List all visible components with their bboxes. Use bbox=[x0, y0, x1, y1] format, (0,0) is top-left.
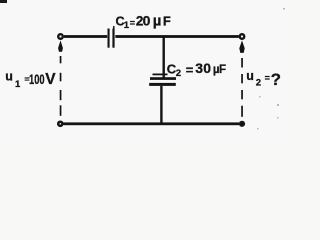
svg-text:u: u bbox=[5, 70, 13, 84]
capacitor C2 bbox=[149, 74, 176, 86]
label u1 = 100V bbox=[5, 70, 56, 90]
arrow: u1 (pointing up) bbox=[58, 40, 63, 52]
svg-text:2: 2 bbox=[176, 68, 181, 79]
svg-text:V: V bbox=[45, 71, 56, 88]
svg-text:?: ? bbox=[271, 70, 281, 89]
wire: middle vertical drop to C2 bbox=[163, 37, 165, 77]
svg-text:0: 0 bbox=[143, 13, 151, 29]
svg-text:=: = bbox=[130, 18, 135, 28]
svg-text:=: = bbox=[265, 73, 270, 83]
svg-text:u: u bbox=[246, 69, 254, 83]
label C1 = 20uF bbox=[116, 13, 171, 31]
wire: left dashed (u1) bbox=[60, 56, 62, 116]
svg-text:100: 100 bbox=[29, 72, 45, 87]
svg-text:F: F bbox=[219, 64, 226, 76]
label u2 = ? bbox=[246, 69, 281, 89]
capacitor C1 bbox=[108, 29, 115, 48]
svg-text:2: 2 bbox=[256, 78, 261, 89]
svg-text:1: 1 bbox=[15, 79, 21, 90]
svg-text:µ: µ bbox=[153, 13, 162, 30]
wire: bottom bbox=[64, 122, 240, 125]
label C2 = 30uF bbox=[167, 60, 226, 79]
node: bottom-left terminal bbox=[58, 122, 62, 126]
scan speck top-left corner bbox=[0, 0, 7, 3]
arrow: u2 (pointing up) bbox=[239, 40, 244, 53]
scan speck (comma) before C1 label bbox=[113, 26, 115, 29]
wire: top, left of C1 bbox=[64, 35, 107, 38]
svg-text:0: 0 bbox=[203, 60, 211, 76]
svg-text:3: 3 bbox=[195, 60, 203, 76]
scan noise specks bbox=[257, 8, 285, 130]
svg-text:F: F bbox=[163, 14, 171, 29]
node: top-right terminal bbox=[240, 34, 245, 39]
wire: middle vertical below C2 bbox=[160, 86, 162, 124]
wire: top, right of C1 bbox=[115, 35, 239, 38]
svg-text:=: = bbox=[186, 63, 194, 78]
node: bottom-right terminal bbox=[239, 121, 245, 127]
wire: right dashed (u2) bbox=[241, 58, 243, 117]
node: top-left terminal bbox=[58, 34, 63, 39]
